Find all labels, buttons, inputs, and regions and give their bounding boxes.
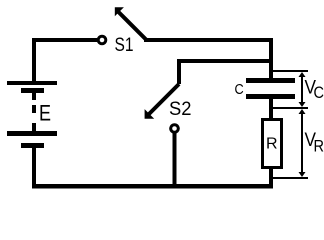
battery E cell1 long plate: [7, 81, 57, 85]
svg-text:S1: S1: [115, 35, 134, 56]
Vr dimension arrow: [299, 109, 306, 177]
battery E cell2 long plate: [7, 131, 57, 136]
label Vc: [305, 78, 324, 103]
svg-text:C: C: [235, 82, 244, 98]
svg-text:E: E: [39, 101, 51, 126]
wire top-left horizontal: [32, 38, 97, 42]
leader line Vc top: [273, 70, 308, 72]
switch S1 arrowhead: [115, 7, 124, 16]
svg-text:R: R: [314, 138, 324, 156]
leader line bottom: [273, 177, 308, 179]
wire S2 branch vertical: [177, 59, 181, 84]
battery E cell2 short plate: [21, 143, 44, 148]
wire right vertical upper: [269, 38, 273, 83]
leader line mid: [273, 107, 308, 109]
switch S1 terminal circle: [98, 36, 106, 44]
wire below S2 circle: [173, 133, 177, 186]
wire bottom-left vertical: [32, 148, 36, 189]
wire left vertical: [32, 38, 36, 85]
svg-text:S2: S2: [169, 99, 192, 120]
battery E cell2 stub: [32, 123, 36, 131]
wire right vertical lower: [269, 167, 273, 186]
battery E middle dash: [32, 105, 36, 113]
switch S2 terminal circle: [171, 125, 179, 133]
battery E cell1 stub: [32, 93, 36, 100]
wire top-right horizontal: [144, 38, 273, 42]
resistor R box: [263, 120, 282, 168]
capacitor C top plate: [246, 78, 295, 83]
switch S2 blade: [149, 84, 180, 115]
Vc dimension arrow: [299, 72, 306, 107]
switch S1 blade: [119, 12, 147, 40]
wire S2 branch horizontal: [177, 59, 273, 63]
switch S2 arrowhead: [145, 109, 155, 119]
svg-text:C: C: [314, 84, 324, 102]
svg-text:R: R: [266, 136, 278, 153]
wire right vertical mid: [269, 99, 273, 120]
label Vr: [305, 130, 324, 156]
capacitor C bottom plate: [246, 94, 295, 99]
battery E cell1 short plate: [21, 88, 44, 93]
wire bottom rail: [32, 184, 273, 189]
